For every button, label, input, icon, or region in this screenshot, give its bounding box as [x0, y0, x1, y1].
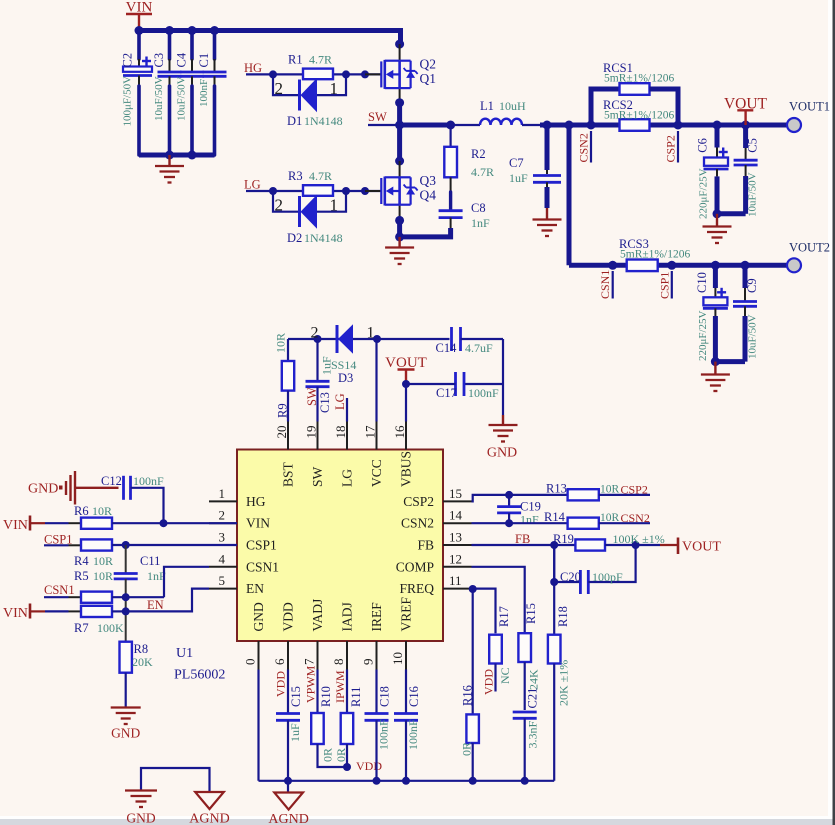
svg-text:10uF/50V: 10uF/50V: [746, 314, 758, 359]
svg-text:R5: R5: [74, 569, 89, 583]
svg-text:100nF: 100nF: [133, 474, 164, 488]
svg-text:1: 1: [367, 325, 375, 342]
resistor R18: [553, 545, 555, 635]
svg-text:100pF: 100pF: [592, 570, 623, 584]
net label CSP1 (sense stub): [671, 271, 673, 299]
capacitor C11: [125, 545, 127, 573]
svg-text:R11: R11: [349, 687, 363, 707]
ground GND (bottom left): [125, 789, 157, 791]
svg-text:1: 1: [330, 79, 339, 98]
svg-text:R10: R10: [319, 686, 333, 707]
svg-text:100μF/50V: 100μF/50V: [122, 76, 134, 127]
wire SW-to-VOUT1 rail: [540, 123, 620, 128]
svg-text:GND: GND: [126, 811, 155, 825]
resistor R17: [473, 589, 496, 634]
diode D3 SS14: [336, 325, 339, 353]
svg-text:1N4148: 1N4148: [304, 114, 343, 128]
svg-text:7: 7: [302, 658, 317, 665]
svg-text:R2: R2: [471, 147, 486, 161]
svg-text:C6: C6: [696, 138, 710, 153]
resistor R11: [346, 670, 348, 714]
capacitor C12: [122, 476, 125, 500]
capacitor C4: [190, 31, 194, 60]
pin 15 CSP2: [443, 500, 472, 502]
svg-text:HG: HG: [244, 61, 262, 75]
pin 18 LG: [346, 422, 348, 450]
svg-text:FB: FB: [417, 538, 434, 553]
net label CSP2 (sense stub): [677, 131, 679, 163]
svg-text:EN: EN: [147, 598, 164, 612]
svg-text:10R: 10R: [274, 333, 288, 353]
svg-text:VREF: VREF: [399, 597, 414, 632]
svg-text:FB: FB: [515, 532, 530, 546]
svg-text:C12: C12: [101, 474, 122, 488]
svg-text:R15: R15: [524, 603, 538, 624]
capacitor C17: [502, 339, 504, 384]
wire CSN1 to pin4: [164, 567, 209, 597]
svg-text:4: 4: [219, 551, 226, 566]
svg-text:24K: 24K: [527, 669, 541, 690]
right window edge: [828, 0, 833, 819]
wire COMP to R15: [472, 567, 525, 633]
svg-text:10uH: 10uH: [499, 99, 526, 113]
svg-text:14: 14: [449, 508, 463, 523]
pin 0 GND: [258, 641, 260, 670]
wire SW trunk: [397, 103, 402, 161]
svg-text:8: 8: [331, 659, 346, 666]
svg-text:R3: R3: [288, 169, 303, 183]
svg-text:SW: SW: [305, 387, 319, 406]
wire C6-C5 bottom: [717, 211, 746, 216]
svg-text:SS14: SS14: [331, 358, 356, 372]
svg-text:2: 2: [311, 325, 319, 342]
svg-text:D1: D1: [287, 114, 302, 128]
svg-text:HG: HG: [246, 494, 266, 509]
svg-text:Q3: Q3: [420, 173, 437, 188]
svg-text:PL56002: PL56002: [174, 668, 225, 683]
wire FREQ node: [472, 587, 473, 589]
pin 8 IADJ: [346, 641, 348, 670]
resistor R10: [316, 670, 318, 714]
svg-text:C17: C17: [436, 386, 457, 400]
svg-text:C5: C5: [746, 138, 760, 153]
svg-text:4.7R: 4.7R: [309, 169, 332, 183]
wire VCC pin to D3: [375, 339, 377, 422]
wire pin14 row: [472, 522, 568, 524]
wire BST node: [288, 338, 377, 340]
pin 2 VIN: [209, 522, 237, 524]
resistor R9: [287, 339, 289, 361]
svg-text:C13: C13: [318, 392, 332, 413]
svg-text:C19: C19: [520, 500, 541, 514]
svg-text:0R: 0R: [459, 742, 473, 756]
svg-text:C16: C16: [407, 686, 421, 707]
svg-text:C15: C15: [289, 686, 303, 707]
resistor R3: [303, 185, 333, 196]
pin 5 EN: [209, 588, 237, 590]
svg-text:1uF: 1uF: [320, 356, 334, 375]
svg-text:2: 2: [219, 508, 226, 523]
svg-text:C14: C14: [436, 341, 458, 355]
pin 14 CSN2: [443, 522, 472, 524]
svg-text:1nF: 1nF: [471, 216, 490, 230]
svg-text:C9: C9: [745, 278, 759, 293]
capacitor C3: [168, 31, 172, 60]
capacitor C10 (polarized): [713, 265, 718, 288]
capacitor C8: [450, 177, 452, 192]
op-amp U1 PL56002 body: [237, 450, 443, 642]
svg-text:SW: SW: [368, 110, 387, 124]
svg-text:IADJ: IADJ: [340, 602, 355, 631]
svg-text:100nF: 100nF: [468, 386, 499, 400]
pin 19 SW: [317, 422, 319, 450]
svg-text:AGND: AGND: [189, 812, 229, 825]
resistor RCS3: [627, 260, 658, 272]
svg-text:220μF/25V: 220μF/25V: [698, 168, 710, 219]
svg-text:VIN: VIN: [3, 518, 28, 533]
svg-text:C2: C2: [121, 53, 135, 68]
svg-text:VDD: VDD: [281, 602, 296, 631]
svg-text:GND: GND: [111, 726, 140, 741]
capacitor C19: [508, 495, 510, 506]
ground (C17): [502, 384, 504, 415]
svg-text:Q4: Q4: [420, 188, 437, 203]
svg-text:C21: C21: [526, 688, 540, 709]
svg-text:C8: C8: [471, 201, 486, 215]
svg-text:10R: 10R: [600, 512, 620, 524]
svg-text:R1: R1: [288, 53, 303, 67]
ground (cap bank): [168, 155, 170, 166]
svg-text:1nF: 1nF: [520, 513, 539, 527]
capacitor C14: [377, 338, 450, 340]
resistor R5: [81, 592, 112, 603]
svg-text:1N4148: 1N4148: [304, 231, 343, 245]
svg-text:D3: D3: [338, 371, 353, 385]
capacitor C21: [513, 711, 537, 714]
svg-text:CSP1: CSP1: [246, 538, 277, 553]
svg-text:VPWM: VPWM: [304, 665, 318, 703]
wire cap-bank bottom bus: [139, 153, 215, 158]
svg-text:C10: C10: [695, 272, 709, 293]
wire SW bus to L1: [400, 123, 451, 128]
svg-text:19: 19: [304, 426, 319, 439]
svg-text:CSN2: CSN2: [401, 516, 434, 531]
wire FB row: [472, 544, 576, 546]
ground (power stage): [398, 237, 400, 247]
pin 16 VBUS: [405, 422, 407, 450]
resistor RCS1: [591, 89, 620, 125]
svg-text:10uF/50V: 10uF/50V: [747, 172, 759, 217]
svg-text:15: 15: [449, 486, 462, 501]
svg-text:1uF: 1uF: [509, 171, 528, 185]
svg-text:R8: R8: [134, 642, 149, 656]
svg-text:FREQ: FREQ: [399, 581, 434, 596]
wire pin15 to R13: [472, 495, 568, 502]
pin 1 HG: [209, 500, 237, 502]
resistor R6: [81, 518, 112, 529]
svg-text:1uF: 1uF: [288, 723, 302, 742]
svg-text:R7: R7: [74, 621, 89, 635]
ground (C7): [546, 208, 548, 219]
svg-text:13: 13: [449, 530, 462, 545]
svg-text:6: 6: [272, 658, 287, 665]
svg-text:CSN2: CSN2: [621, 511, 650, 525]
svg-text:R19: R19: [553, 532, 574, 546]
svg-text:R9: R9: [276, 403, 290, 418]
svg-text:100nF: 100nF: [198, 79, 210, 107]
svg-text:IREF: IREF: [369, 602, 384, 632]
svg-text:GND: GND: [28, 482, 58, 497]
resistor R8: [120, 642, 132, 673]
svg-text:10: 10: [390, 652, 405, 665]
svg-text:9: 9: [361, 659, 376, 666]
svg-text:20K: 20K: [132, 655, 153, 669]
wire AGND bus: [259, 780, 555, 782]
svg-text:20K ±1%: 20K ±1%: [557, 660, 571, 706]
svg-text:5: 5: [219, 573, 226, 588]
capacitor C16: [405, 670, 407, 713]
svg-text:GND: GND: [251, 602, 266, 631]
capacitor C7: [545, 125, 550, 170]
resistor R1: [303, 69, 333, 80]
svg-text:0: 0: [243, 659, 258, 666]
svg-text:10uF/50V: 10uF/50V: [176, 76, 188, 121]
capacitor C18: [375, 670, 377, 713]
svg-text:3.3nF: 3.3nF: [526, 721, 540, 749]
pin 12 COMP: [443, 566, 472, 568]
wire GND-AGND bridge: [141, 768, 210, 792]
svg-text:R14: R14: [544, 510, 566, 524]
svg-text:C1: C1: [197, 53, 211, 68]
svg-text:C4: C4: [175, 52, 189, 67]
svg-text:LG: LG: [340, 469, 355, 487]
svg-text:12: 12: [449, 551, 462, 566]
svg-text:20: 20: [274, 426, 289, 439]
ground AGND (bottom left): [195, 792, 224, 809]
svg-text:CSP2: CSP2: [621, 483, 648, 497]
svg-text:10R: 10R: [600, 484, 620, 496]
svg-text:11: 11: [449, 573, 462, 588]
svg-text:CSP1: CSP1: [657, 272, 671, 299]
svg-text:R4: R4: [74, 554, 89, 568]
wire R10/R11 to VDD: [318, 744, 348, 767]
wire HG row: [246, 73, 381, 75]
svg-text:CSP2: CSP2: [403, 494, 434, 509]
svg-text:CSN1: CSN1: [598, 270, 612, 299]
resistor R7: [81, 606, 112, 617]
resistor R2: [450, 125, 452, 147]
svg-text:CSN1: CSN1: [246, 559, 279, 574]
svg-text:R16: R16: [460, 685, 474, 706]
svg-text:D2: D2: [287, 231, 302, 245]
pin 20 BST: [287, 422, 289, 450]
resistor R16: [472, 589, 474, 714]
svg-text:16: 16: [392, 425, 407, 439]
junction dots on VIN bus: [135, 26, 144, 35]
pin 6 VDD: [287, 641, 289, 670]
svg-text:L1: L1: [480, 99, 494, 113]
capacitor C5: [743, 125, 748, 148]
resistor R13: [568, 489, 599, 500]
net label LG (pin 18): [346, 398, 348, 422]
svg-text:4.7R: 4.7R: [309, 53, 332, 67]
ground (C6/C5): [716, 214, 718, 226]
net label CSN2 (sense stub): [590, 131, 592, 163]
pin 13 FB: [443, 544, 472, 546]
svg-text:VIN: VIN: [3, 606, 28, 621]
svg-text:C11: C11: [140, 554, 160, 568]
svg-text:EN: EN: [246, 581, 264, 596]
svg-text:CSP2: CSP2: [664, 135, 678, 162]
svg-text:VADJ: VADJ: [310, 599, 325, 632]
svg-text:VDD: VDD: [482, 669, 496, 695]
svg-text:LG: LG: [333, 393, 347, 410]
inductor L1: [480, 119, 522, 125]
svg-text:100nF: 100nF: [406, 719, 420, 750]
svg-text:R6: R6: [74, 504, 89, 518]
svg-text:10uF/50V: 10uF/50V: [153, 76, 165, 121]
svg-text:Q1: Q1: [420, 71, 437, 86]
svg-text:NC: NC: [498, 667, 512, 684]
wire VIN bus (top): [139, 31, 401, 45]
svg-text:5mR±1%/1206: 5mR±1%/1206: [604, 110, 674, 122]
diode D2 1N4148: [273, 191, 300, 212]
svg-text:220μF/25V: 220μF/25V: [697, 310, 709, 361]
capacitor C2: [137, 31, 141, 60]
svg-text:Q2: Q2: [420, 56, 437, 71]
svg-text:LG: LG: [244, 178, 261, 192]
svg-text:R13: R13: [546, 482, 567, 496]
pin 10 VREF: [405, 641, 407, 670]
pin 9 IREF: [376, 641, 378, 670]
svg-text:0R: 0R: [321, 748, 335, 762]
wire VBUS pin: [405, 384, 407, 422]
svg-text:17: 17: [363, 425, 378, 439]
port VOUT (FB): [660, 544, 677, 546]
svg-text:VIN: VIN: [246, 516, 270, 531]
pin 7 VADJ: [317, 641, 319, 670]
svg-text:VBUS: VBUS: [399, 451, 414, 487]
capacitor C9: [743, 265, 748, 288]
capacitor C1: [213, 31, 217, 60]
pin 11 FREQ: [443, 588, 472, 590]
diode D1 1N4148: [273, 74, 300, 95]
svg-text:C3: C3: [152, 53, 166, 68]
ground (C10/C9): [714, 362, 716, 374]
pin 17 VCC: [376, 422, 378, 450]
pin 3 CSP1: [209, 544, 237, 546]
svg-text:4.7R: 4.7R: [471, 165, 494, 179]
svg-text:COMP: COMP: [396, 559, 434, 574]
svg-text:VDD: VDD: [356, 759, 382, 773]
capacitor C20: [553, 545, 555, 582]
svg-text:SW: SW: [310, 466, 325, 487]
svg-text:CSN1: CSN1: [44, 583, 75, 597]
svg-text:100K ±1%: 100K ±1%: [613, 532, 665, 546]
svg-text:10R: 10R: [93, 569, 113, 583]
wire C10-C9 bottom: [715, 359, 745, 364]
svg-text:U1: U1: [176, 646, 193, 661]
svg-text:R17: R17: [497, 606, 511, 627]
svg-text:2: 2: [275, 79, 284, 98]
svg-text:IPWM: IPWM: [333, 670, 347, 703]
bottom scrollbar strip: [0, 816, 835, 819]
svg-text:10R: 10R: [93, 554, 113, 568]
resistor RCS2: [620, 119, 650, 131]
svg-text:100K: 100K: [97, 621, 124, 635]
svg-text:VOUT2: VOUT2: [789, 241, 830, 255]
net label CSN1 (sense stub): [612, 271, 614, 299]
svg-text:1: 1: [219, 486, 226, 501]
svg-text:VOUT: VOUT: [682, 540, 721, 555]
capacitor C13: [316, 339, 318, 380]
svg-text:10R: 10R: [92, 504, 112, 518]
wire LG row: [246, 190, 381, 192]
svg-text:VOUT1: VOUT1: [789, 100, 830, 114]
resistor R19: [575, 539, 605, 550]
capacitor C15: [287, 670, 289, 713]
svg-text:5mR±1%/1206: 5mR±1%/1206: [604, 73, 674, 85]
svg-text:3: 3: [219, 530, 226, 545]
svg-text:AGND: AGND: [268, 812, 308, 825]
resistor R4: [81, 539, 112, 550]
wire Q3 source to ground node: [397, 220, 402, 237]
svg-text:R18: R18: [556, 606, 570, 627]
ground (R8): [111, 706, 141, 708]
wire pin0 GND column: [257, 670, 259, 781]
transistor Q3/Q4: [365, 190, 381, 192]
resistor R15: [518, 633, 531, 662]
ground AGND (bus): [287, 781, 289, 793]
svg-text:1: 1: [330, 196, 339, 215]
svg-text:VCC: VCC: [369, 459, 384, 487]
capacitor C6 (polarized): [715, 125, 720, 148]
svg-text:C18: C18: [378, 686, 392, 707]
resistor R14: [568, 518, 599, 529]
svg-text:2: 2: [275, 196, 284, 215]
svg-text:4.7uF: 4.7uF: [465, 341, 493, 355]
svg-text:VDD: VDD: [274, 671, 288, 697]
svg-text:18: 18: [333, 426, 348, 439]
pin 4 CSN1: [209, 566, 237, 568]
svg-text:C7: C7: [509, 156, 524, 170]
svg-text:GND: GND: [487, 446, 517, 461]
wire VOUT2 rail: [567, 125, 572, 265]
svg-text:CSN2: CSN2: [577, 133, 591, 162]
svg-text:C20: C20: [560, 570, 581, 584]
svg-text:BST: BST: [281, 461, 296, 487]
transistor Q2/Q1: [365, 73, 381, 75]
svg-text:5mR±1%/1206: 5mR±1%/1206: [620, 249, 690, 261]
svg-text:100nF: 100nF: [377, 719, 391, 750]
